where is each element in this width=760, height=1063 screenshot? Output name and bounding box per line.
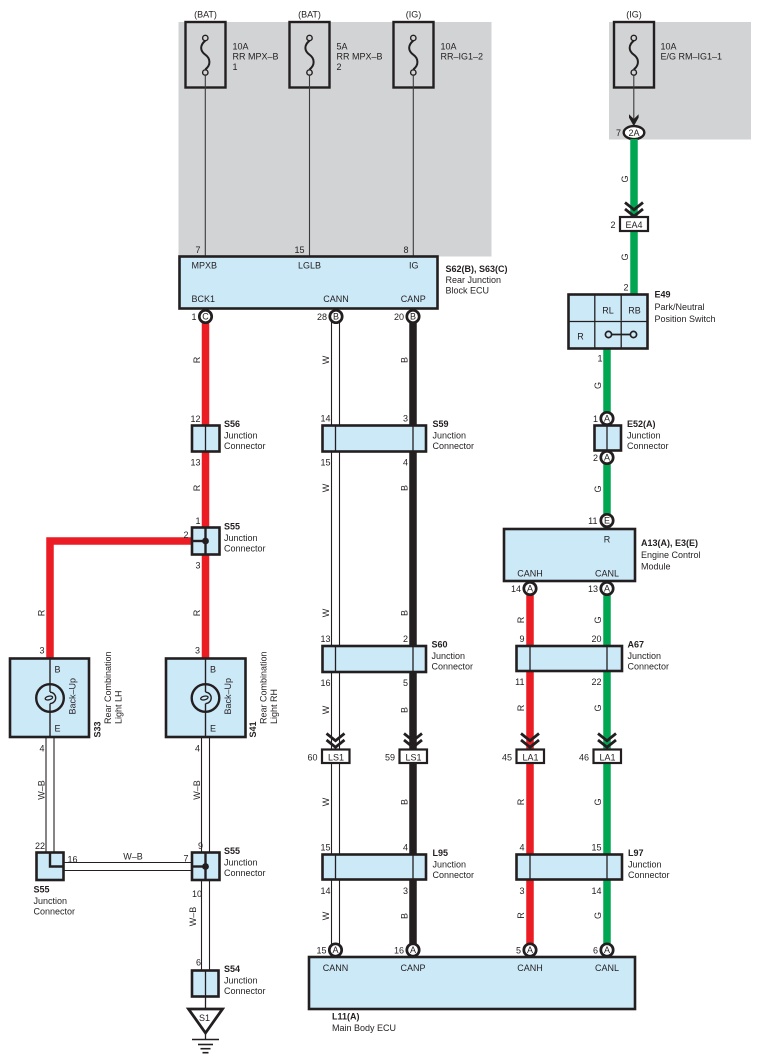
svg-text:22: 22 — [35, 841, 45, 851]
wire label R col5 y802 — [516, 798, 526, 805]
pin 14 connector A below CANH — [511, 582, 536, 594]
svg-text:L11(A): L11(A) — [332, 1012, 360, 1022]
svg-text:MPXB: MPXB — [192, 261, 218, 271]
svg-text:20: 20 — [394, 312, 404, 322]
svg-text:R: R — [516, 798, 526, 805]
svg-text:15: 15 — [316, 946, 326, 956]
svg-text:B: B — [400, 799, 410, 805]
wire W-B horizontal between S55 connectors — [63, 852, 192, 871]
svg-text:4: 4 — [39, 744, 44, 754]
svg-text:E: E — [55, 724, 61, 734]
wire W from CANN down to L11 (double line) — [332, 322, 340, 944]
svg-text:4: 4 — [403, 458, 408, 468]
svg-text:A67: A67 — [628, 640, 645, 650]
svg-text:5: 5 — [516, 946, 521, 956]
svg-text:Junction: Junction — [628, 651, 662, 661]
svg-text:LA1: LA1 — [522, 752, 538, 762]
svg-text:10A: 10A — [661, 41, 677, 51]
svg-text:2: 2 — [623, 283, 628, 293]
svg-text:Light RH: Light RH — [269, 689, 279, 724]
svg-text:2: 2 — [610, 220, 615, 230]
wire label G col7 y179 — [620, 175, 630, 182]
wire label B col4 y710 — [400, 707, 410, 713]
svg-text:Back–Up: Back–Up — [68, 678, 78, 715]
wire G from E49 pin 1 down to L11 — [603, 348, 611, 944]
svg-text:RB: RB — [628, 305, 641, 315]
svg-text:5: 5 — [403, 678, 408, 688]
connector LS1 pin 60 — [307, 750, 349, 764]
svg-text:1: 1 — [191, 312, 196, 322]
svg-text:E/G RM–IG1–1: E/G RM–IG1–1 — [661, 52, 723, 62]
junction connector L97 — [517, 843, 670, 897]
svg-text:15: 15 — [591, 843, 601, 853]
svg-text:RR–IG1–2: RR–IG1–2 — [441, 52, 484, 62]
svg-text:Connector: Connector — [433, 870, 475, 880]
svg-text:B: B — [400, 485, 410, 491]
svg-text:A: A — [332, 945, 338, 955]
chevron arrow col4 — [404, 734, 422, 748]
svg-text:(IG): (IG) — [626, 10, 642, 20]
back-up light S41 rear combination light RH — [166, 646, 279, 754]
svg-text:R: R — [604, 535, 611, 545]
svg-text:CANL: CANL — [595, 569, 619, 579]
svg-text:EA4: EA4 — [625, 220, 642, 230]
pin 28 connector B below CANN — [317, 310, 342, 322]
svg-text:13: 13 — [190, 458, 200, 468]
svg-text:R: R — [192, 356, 202, 363]
svg-text:RL: RL — [602, 305, 614, 315]
chevron arrow col6 — [598, 734, 616, 748]
svg-text:B: B — [400, 610, 410, 616]
junction connector S54 — [192, 958, 266, 997]
svg-text:S55: S55 — [34, 885, 50, 895]
svg-text:R: R — [516, 704, 526, 711]
svg-text:Junction: Junction — [433, 431, 467, 441]
wire label R col5 y620 — [516, 616, 526, 623]
pin 1 connector A above E52 — [593, 412, 613, 424]
svg-text:4: 4 — [403, 843, 408, 853]
wire fuse F2 to LGLB pin 15 — [294, 75, 309, 256]
arrow into 2A — [629, 114, 639, 126]
svg-text:G: G — [593, 912, 603, 919]
wire label W col3 y613 — [321, 608, 331, 617]
main body ECU L11(A) — [309, 957, 635, 1033]
wire label W col3 y360 — [321, 355, 331, 364]
svg-text:A: A — [604, 584, 610, 594]
svg-text:R: R — [192, 484, 202, 491]
svg-text:Connector: Connector — [34, 907, 76, 917]
svg-text:3: 3 — [195, 561, 200, 571]
wire label G col6 y370 — [593, 382, 603, 389]
svg-text:CANN: CANN — [323, 963, 349, 973]
svg-text:15: 15 — [320, 843, 330, 853]
svg-text:B: B — [55, 665, 61, 675]
wire label G col6 y802 — [593, 798, 603, 805]
svg-text:2: 2 — [183, 530, 188, 540]
svg-text:A: A — [604, 414, 610, 424]
svg-text:LA1: LA1 — [599, 752, 615, 762]
chevron arrow col5 — [521, 734, 539, 748]
junction connector L95 — [320, 843, 474, 897]
svg-text:11: 11 — [515, 677, 524, 687]
svg-text:Connector: Connector — [224, 544, 266, 554]
svg-text:Light LH: Light LH — [114, 690, 124, 724]
junction connector S55 lower right — [183, 841, 265, 899]
svg-text:C: C — [202, 312, 209, 322]
svg-text:LGLB: LGLB — [298, 261, 321, 271]
wire R from BCK1 down with branch to S33 — [50, 322, 206, 659]
svg-text:CANL: CANL — [595, 963, 619, 973]
svg-text:G: G — [593, 616, 603, 623]
svg-text:Rear Combination: Rear Combination — [103, 651, 113, 724]
svg-text:S60: S60 — [432, 640, 448, 650]
svg-text:1: 1 — [593, 414, 598, 424]
shaded engine room R/B area — [609, 22, 751, 140]
svg-text:4: 4 — [195, 744, 200, 754]
svg-text:6: 6 — [593, 946, 598, 956]
svg-text:S55: S55 — [224, 846, 240, 856]
wire label R col2 y360 — [192, 356, 202, 363]
wire fuse F3 to IG pin 8 — [403, 75, 413, 256]
svg-text:10A: 10A — [441, 41, 457, 51]
svg-text:Connector: Connector — [628, 662, 670, 672]
svg-text:E49: E49 — [655, 290, 671, 300]
svg-text:Park/Neutral: Park/Neutral — [655, 302, 705, 312]
svg-text:L97: L97 — [628, 848, 644, 858]
svg-text:R: R — [577, 331, 584, 341]
svg-text:W: W — [321, 483, 331, 492]
svg-text:Connector: Connector — [433, 441, 475, 451]
park/neutral position switch E49 — [569, 283, 716, 364]
svg-text:Connector: Connector — [224, 868, 266, 878]
svg-text:Junction: Junction — [433, 860, 467, 870]
svg-text:16: 16 — [394, 946, 404, 956]
svg-text:A: A — [604, 945, 610, 955]
wire B from CANP down to L11 — [409, 322, 417, 944]
wire label B col4 y360 — [400, 357, 410, 363]
svg-text:A: A — [604, 453, 610, 463]
svg-text:S1: S1 — [199, 1013, 210, 1023]
svg-text:W: W — [321, 355, 331, 364]
wire label W col3 y802 — [321, 797, 331, 806]
pin 1 connector C below BCK1 — [191, 310, 211, 322]
svg-text:G: G — [593, 704, 603, 711]
wire label G col6 y489 — [593, 485, 603, 492]
svg-text:E52(A): E52(A) — [627, 419, 656, 429]
svg-text:10: 10 — [192, 889, 202, 899]
svg-text:Connector: Connector — [432, 662, 474, 672]
svg-text:1: 1 — [233, 62, 238, 72]
svg-text:6: 6 — [196, 958, 201, 968]
pin 2 connector A below E52 — [593, 451, 613, 463]
svg-text:G: G — [620, 253, 630, 260]
svg-text:B: B — [410, 312, 416, 322]
svg-text:W: W — [321, 911, 331, 920]
junction connector S59 — [320, 414, 474, 468]
svg-text:IG: IG — [409, 261, 419, 271]
wire fuse F4 down to connector 2A — [633, 75, 635, 119]
wire label R col5 y915.5 — [516, 912, 526, 919]
svg-text:Junction: Junction — [224, 431, 258, 441]
svg-text:CANH: CANH — [517, 963, 543, 973]
pin 20 connector B below CANP — [394, 310, 419, 322]
chevron arrow col7 into EA4 — [625, 203, 643, 217]
svg-text:S55: S55 — [224, 522, 240, 532]
svg-text:G: G — [593, 485, 603, 492]
wire W-B from S33 down to S55 lower left — [46, 737, 54, 853]
svg-text:60: 60 — [307, 752, 317, 762]
svg-text:8: 8 — [403, 245, 408, 255]
svg-text:14: 14 — [591, 886, 601, 896]
svg-text:B: B — [400, 913, 410, 919]
svg-text:R: R — [37, 609, 47, 616]
svg-text:R: R — [516, 616, 526, 623]
wire label W-B col1 y790 — [37, 780, 47, 800]
svg-text:Engine Control: Engine Control — [641, 550, 701, 560]
svg-text:Junction: Junction — [224, 858, 258, 868]
wire W-B from S41 down to S55 lower right and S54 and ground — [202, 737, 210, 971]
svg-text:7: 7 — [616, 128, 621, 138]
svg-text:13: 13 — [588, 584, 598, 594]
svg-text:59: 59 — [385, 752, 395, 762]
svg-text:W–B: W–B — [37, 780, 47, 800]
svg-text:10A: 10A — [233, 41, 249, 51]
svg-text:2: 2 — [337, 62, 342, 72]
svg-text:Connector: Connector — [628, 870, 670, 880]
svg-text:E: E — [604, 516, 610, 526]
svg-text:S56: S56 — [224, 419, 240, 429]
wire label R col2 y613 — [192, 609, 202, 616]
junction connector S56 — [190, 414, 265, 468]
svg-text:B: B — [210, 665, 216, 675]
svg-text:G: G — [593, 382, 603, 389]
wire label G col6 y708 — [593, 704, 603, 711]
svg-text:7: 7 — [195, 245, 200, 255]
svg-text:Module: Module — [641, 562, 671, 572]
svg-text:7: 7 — [183, 854, 188, 864]
wire label W col3 y710 — [321, 705, 331, 714]
engine control module A13(A) E3(E) — [504, 529, 701, 581]
svg-text:Junction: Junction — [34, 896, 68, 906]
junction connector E52(A) — [595, 419, 669, 451]
pin 15 connector A above L11 CANN — [316, 944, 341, 956]
svg-text:S33: S33 — [93, 721, 103, 737]
svg-text:14: 14 — [320, 414, 330, 424]
svg-text:Junction: Junction — [627, 431, 661, 441]
fuse F1 10A RR MPX-B 1 — [186, 10, 279, 88]
svg-text:(BAT): (BAT) — [194, 10, 217, 20]
svg-text:R: R — [192, 609, 202, 616]
svg-text:B: B — [333, 312, 339, 322]
svg-text:28: 28 — [317, 312, 327, 322]
svg-text:3: 3 — [403, 886, 408, 896]
svg-text:9: 9 — [519, 634, 524, 644]
svg-text:22: 22 — [591, 677, 601, 687]
svg-text:(BAT): (BAT) — [298, 10, 321, 20]
svg-text:RR MPX–B: RR MPX–B — [233, 52, 279, 62]
svg-text:BCK1: BCK1 — [192, 294, 216, 304]
svg-text:L95: L95 — [433, 848, 449, 858]
svg-text:14: 14 — [320, 886, 330, 896]
svg-text:CANN: CANN — [323, 294, 349, 304]
svg-text:Block ECU: Block ECU — [446, 286, 490, 296]
svg-text:S62(B), S63(C): S62(B), S63(C) — [446, 264, 508, 274]
svg-text:15: 15 — [320, 458, 330, 468]
wire label G col7 y257 — [620, 253, 630, 260]
svg-text:S54: S54 — [224, 964, 240, 974]
svg-text:W: W — [321, 705, 331, 714]
svg-text:2: 2 — [403, 634, 408, 644]
svg-text:W: W — [321, 797, 331, 806]
rear junction block ECU S62(B) S63(C) — [180, 257, 508, 309]
pin 5 connector A above L11 CANH — [516, 944, 536, 956]
junction connector S55 upper — [183, 516, 265, 571]
svg-text:LS1: LS1 — [405, 752, 421, 762]
wire label W col3 y488 — [321, 483, 331, 492]
svg-text:Rear Junction: Rear Junction — [446, 275, 502, 285]
svg-text:E: E — [210, 724, 216, 734]
wire label G col6 y915.5 — [593, 912, 603, 919]
svg-text:B: B — [400, 707, 410, 713]
back-up light S33 rear combination light LH — [10, 646, 124, 754]
fuse F3 10A RR-IG1-2 — [394, 10, 484, 88]
svg-text:9: 9 — [198, 841, 203, 851]
svg-text:CANP: CANP — [401, 294, 426, 304]
pin 6 connector A above L11 CANL — [593, 944, 613, 956]
svg-text:2A: 2A — [628, 128, 639, 138]
pin 16 connector A above L11 CANP — [394, 944, 419, 956]
junction connector A67 — [515, 634, 669, 687]
ground S1 — [189, 997, 223, 1053]
wire label B col4 y916 — [400, 913, 410, 919]
wire label R col1 y613 — [37, 609, 47, 616]
svg-text:Junction: Junction — [224, 533, 258, 543]
svg-text:15: 15 — [294, 245, 304, 255]
svg-text:LS1: LS1 — [328, 752, 344, 762]
svg-text:Position Switch: Position Switch — [655, 314, 716, 324]
svg-text:Connector: Connector — [627, 441, 669, 451]
wire fuse F1 to MPXB pin 7 — [195, 75, 205, 256]
svg-text:A: A — [527, 584, 533, 594]
svg-text:12: 12 — [190, 414, 200, 424]
svg-text:11: 11 — [588, 516, 597, 526]
wire label W-B col2 y916 — [188, 907, 198, 927]
junction connector S60 — [320, 634, 473, 688]
svg-text:B: B — [400, 357, 410, 363]
wire G fuse column to E49 — [630, 139, 638, 295]
svg-text:A13(A), E3(E): A13(A), E3(E) — [641, 538, 698, 548]
svg-text:Junction: Junction — [224, 976, 258, 986]
wire R CANH from ECM down to L11 — [526, 581, 534, 944]
connector LA1 pin 45 — [502, 750, 544, 764]
pin 11 connector E above ECM — [588, 514, 613, 526]
svg-text:3: 3 — [39, 646, 44, 656]
svg-text:Back–Up: Back–Up — [223, 678, 233, 715]
svg-text:RR MPX–B: RR MPX–B — [337, 52, 383, 62]
svg-text:16: 16 — [320, 678, 330, 688]
svg-text:W: W — [321, 608, 331, 617]
svg-text:3: 3 — [195, 646, 200, 656]
connector 2A (ellipse) pin 7 — [616, 126, 644, 139]
svg-text:46: 46 — [579, 752, 589, 762]
svg-text:A: A — [410, 945, 416, 955]
svg-text:20: 20 — [591, 634, 601, 644]
connector EA4 pin 2 — [610, 217, 648, 231]
svg-text:16: 16 — [68, 855, 78, 865]
svg-text:45: 45 — [502, 752, 512, 762]
svg-text:G: G — [593, 798, 603, 805]
pin 13 connector A below CANL — [588, 582, 613, 594]
svg-text:G: G — [620, 175, 630, 182]
wire label B col4 y488 — [400, 485, 410, 491]
svg-text:CANP: CANP — [400, 963, 425, 973]
svg-text:14: 14 — [511, 584, 521, 594]
svg-text:5A: 5A — [337, 41, 348, 51]
svg-text:R: R — [516, 912, 526, 919]
wire label B col4 y802 — [400, 799, 410, 805]
fuse F2 5A RR MPX-B 2 — [290, 10, 383, 88]
fuse F4 10A E/G RM-IG1-1 — [614, 10, 722, 88]
svg-text:Connector: Connector — [224, 441, 266, 451]
svg-text:1: 1 — [597, 354, 602, 364]
svg-text:CANH: CANH — [517, 569, 543, 579]
svg-text:2: 2 — [593, 453, 598, 463]
svg-text:W–B: W–B — [192, 780, 202, 800]
wire label R col5 y708 — [516, 704, 526, 711]
svg-text:Connector: Connector — [224, 986, 266, 996]
svg-text:W–B: W–B — [123, 852, 143, 862]
svg-text:Junction: Junction — [628, 860, 662, 870]
wire label G col6 y620 — [593, 616, 603, 623]
svg-text:S59: S59 — [433, 419, 449, 429]
wire label R col2 y488 — [192, 484, 202, 491]
svg-text:13: 13 — [320, 634, 330, 644]
wire label W-B col2 y790 — [192, 780, 202, 800]
svg-text:Main Body ECU: Main Body ECU — [332, 1023, 396, 1033]
svg-text:Junction: Junction — [432, 651, 466, 661]
wire label W col3 y916 — [321, 911, 331, 920]
svg-text:(IG): (IG) — [406, 10, 422, 20]
junction connector S55 lower left — [34, 841, 78, 917]
svg-text:A: A — [527, 945, 533, 955]
svg-text:W–B: W–B — [188, 907, 198, 927]
shaded junction block area — [179, 22, 492, 257]
svg-text:Rear Combination: Rear Combination — [259, 651, 269, 724]
svg-text:4: 4 — [519, 843, 524, 853]
connector LA1 pin 46 — [579, 750, 621, 764]
wire label B col4 y613 — [400, 610, 410, 616]
svg-text:3: 3 — [403, 414, 408, 424]
svg-text:3: 3 — [519, 886, 524, 896]
connector LS1 pin 59 — [385, 750, 427, 764]
chevron arrow col3 — [327, 734, 345, 748]
svg-text:S41: S41 — [248, 721, 258, 737]
svg-text:1: 1 — [195, 516, 200, 526]
